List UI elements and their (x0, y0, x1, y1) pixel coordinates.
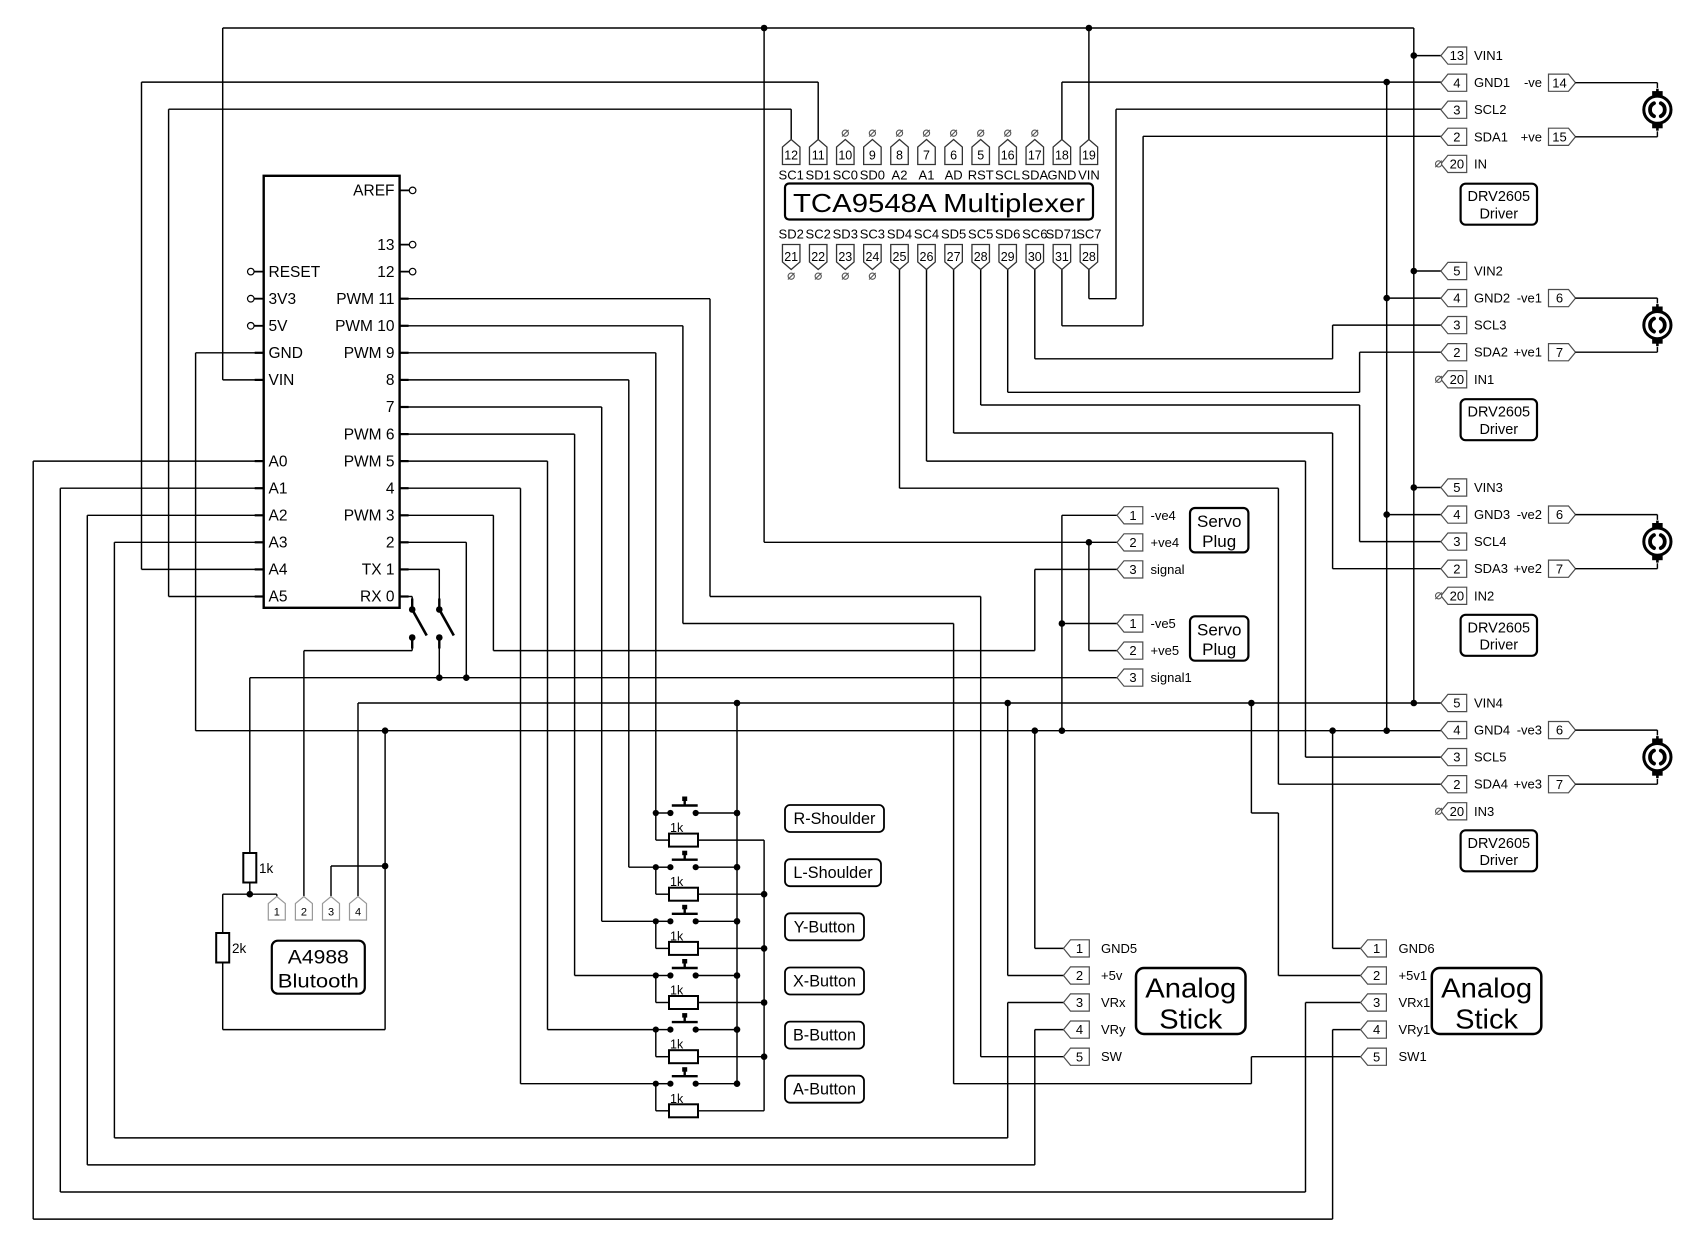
svg-text:25: 25 (893, 250, 907, 264)
svg-text:Driver: Driver (1479, 853, 1518, 869)
svg-text:2: 2 (1453, 345, 1460, 360)
svg-text:SW: SW (1101, 1049, 1123, 1064)
svg-text:Y-Button: Y-Button (794, 918, 856, 936)
svg-text:18: 18 (1055, 148, 1069, 162)
svg-text:6: 6 (1556, 723, 1563, 738)
svg-text:GND2: GND2 (1474, 291, 1510, 306)
svg-text:SC7: SC7 (1076, 227, 1101, 242)
svg-text:A2: A2 (269, 508, 288, 525)
svg-text:Servo: Servo (1197, 620, 1241, 639)
svg-text:IN2: IN2 (1474, 588, 1494, 603)
svg-text:1k: 1k (670, 929, 684, 943)
svg-text:DRV2605: DRV2605 (1467, 836, 1530, 852)
svg-text:12: 12 (784, 148, 798, 162)
svg-text:SW1: SW1 (1399, 1049, 1427, 1064)
svg-text:IN: IN (1474, 156, 1487, 171)
svg-text:2: 2 (301, 907, 307, 919)
svg-text:SD0: SD0 (860, 168, 885, 183)
svg-text:1: 1 (1373, 941, 1380, 956)
svg-text:2: 2 (1129, 643, 1136, 658)
svg-text:16: 16 (1001, 148, 1015, 162)
svg-text:2: 2 (1453, 777, 1460, 792)
svg-text:PWM 9: PWM 9 (344, 345, 395, 362)
svg-text:4: 4 (1453, 723, 1460, 738)
svg-text:signal1: signal1 (1151, 670, 1192, 685)
svg-text:SCL5: SCL5 (1474, 750, 1507, 765)
svg-text:Analog: Analog (1441, 973, 1532, 1004)
svg-text:20: 20 (1450, 372, 1464, 387)
svg-text:IN1: IN1 (1474, 372, 1494, 387)
svg-text:20: 20 (1450, 588, 1464, 603)
svg-text:28: 28 (1082, 250, 1096, 264)
svg-text:A1: A1 (919, 168, 935, 183)
svg-text:VRx: VRx (1101, 995, 1126, 1010)
svg-text:SCL: SCL (995, 168, 1020, 183)
svg-text:VRy1: VRy1 (1399, 1022, 1431, 1037)
svg-text:B-Button: B-Button (793, 1027, 856, 1045)
svg-text:2: 2 (1453, 129, 1460, 144)
svg-text:GND3: GND3 (1474, 507, 1510, 522)
svg-text:5: 5 (1076, 1049, 1083, 1064)
svg-text:3: 3 (1453, 318, 1460, 333)
svg-text:PWM 11: PWM 11 (336, 291, 394, 308)
svg-text:SC0: SC0 (833, 168, 858, 183)
svg-text:VIN3: VIN3 (1474, 480, 1503, 495)
svg-text:+5v1: +5v1 (1399, 968, 1428, 983)
svg-text:Driver: Driver (1479, 422, 1518, 438)
svg-text:22: 22 (811, 250, 825, 264)
svg-text:3: 3 (1373, 995, 1380, 1010)
svg-text:SD2: SD2 (779, 227, 804, 242)
svg-text:Driver: Driver (1479, 638, 1518, 654)
svg-text:VIN2: VIN2 (1474, 264, 1503, 279)
svg-text:+5v: +5v (1101, 968, 1123, 983)
svg-text:8: 8 (896, 148, 903, 162)
svg-text:DRV2605: DRV2605 (1467, 620, 1530, 636)
svg-text:VRy: VRy (1101, 1022, 1126, 1037)
svg-text:4: 4 (1453, 507, 1460, 522)
svg-text:TX 1: TX 1 (362, 562, 395, 579)
svg-text:SC3: SC3 (860, 227, 885, 242)
svg-text:4: 4 (1453, 75, 1460, 90)
svg-text:14: 14 (1552, 75, 1566, 90)
svg-text:SDA1: SDA1 (1474, 129, 1508, 144)
svg-text:5: 5 (1453, 696, 1460, 711)
svg-text:VRx1: VRx1 (1399, 995, 1431, 1010)
svg-text:23: 23 (838, 250, 852, 264)
svg-text:31: 31 (1055, 250, 1069, 264)
svg-text:AD: AD (945, 168, 963, 183)
svg-text:5: 5 (977, 148, 984, 162)
svg-text:A2: A2 (892, 168, 908, 183)
svg-text:VIN: VIN (269, 372, 295, 389)
svg-text:A1: A1 (269, 480, 288, 497)
svg-text:15: 15 (1552, 129, 1566, 144)
svg-text:SC4: SC4 (914, 227, 939, 242)
svg-text:7: 7 (1556, 777, 1563, 792)
svg-text:5: 5 (1373, 1049, 1380, 1064)
svg-text:-ve3: -ve3 (1517, 723, 1542, 738)
svg-text:VIN: VIN (1078, 168, 1100, 183)
svg-text:13: 13 (1450, 48, 1464, 63)
svg-text:1: 1 (274, 907, 280, 919)
svg-text:6: 6 (1556, 507, 1563, 522)
svg-text:SC2: SC2 (806, 227, 831, 242)
svg-text:SD5: SD5 (941, 227, 966, 242)
svg-text:2: 2 (386, 535, 395, 552)
svg-text:7: 7 (923, 148, 930, 162)
svg-text:4: 4 (355, 907, 361, 919)
svg-text:2: 2 (1453, 561, 1460, 576)
svg-text:SC1: SC1 (779, 168, 804, 183)
svg-text:TCA9548A Multiplexer: TCA9548A Multiplexer (793, 188, 1085, 218)
svg-text:Plug: Plug (1202, 532, 1236, 551)
svg-text:SD4: SD4 (887, 227, 912, 242)
svg-text:4: 4 (1453, 291, 1460, 306)
svg-text:1k: 1k (670, 1092, 684, 1106)
svg-text:8: 8 (386, 372, 395, 389)
svg-text:17: 17 (1028, 148, 1042, 162)
svg-text:2k: 2k (232, 941, 247, 956)
svg-text:DRV2605: DRV2605 (1467, 189, 1530, 205)
svg-text:A4: A4 (269, 562, 288, 579)
svg-text:3V3: 3V3 (269, 291, 297, 308)
svg-text:20: 20 (1450, 804, 1464, 819)
svg-text:+ve2: +ve2 (1513, 561, 1542, 576)
svg-text:7: 7 (1556, 561, 1563, 576)
svg-text:5: 5 (1453, 264, 1460, 279)
svg-text:SDA3: SDA3 (1474, 561, 1508, 576)
svg-text:3: 3 (328, 907, 334, 919)
svg-text:-ve1: -ve1 (1517, 291, 1542, 306)
svg-text:Driver: Driver (1479, 207, 1518, 223)
svg-text:2: 2 (1373, 968, 1380, 983)
svg-text:9: 9 (869, 148, 876, 162)
svg-text:GND1: GND1 (1474, 75, 1510, 90)
svg-text:+ve5: +ve5 (1151, 643, 1180, 658)
svg-text:30: 30 (1028, 250, 1042, 264)
svg-text:PWM 3: PWM 3 (344, 508, 395, 525)
svg-text:PWM 10: PWM 10 (335, 318, 395, 335)
svg-text:GND: GND (269, 345, 303, 362)
svg-text:AREF: AREF (353, 183, 394, 200)
svg-text:X-Button: X-Button (793, 973, 856, 991)
svg-text:4: 4 (1076, 1022, 1083, 1037)
svg-text:SC6: SC6 (1022, 227, 1047, 242)
svg-text:SD3: SD3 (833, 227, 858, 242)
svg-text:RST: RST (968, 168, 994, 183)
svg-text:Analog: Analog (1145, 973, 1236, 1004)
svg-text:1k: 1k (670, 984, 684, 998)
svg-text:VIN4: VIN4 (1474, 696, 1503, 711)
svg-text:SCL4: SCL4 (1474, 534, 1507, 549)
svg-text:1: 1 (1129, 508, 1136, 523)
svg-text:27: 27 (947, 250, 961, 264)
svg-text:3: 3 (1453, 102, 1460, 117)
svg-text:SC5: SC5 (968, 227, 993, 242)
svg-text:+ve1: +ve1 (1513, 345, 1542, 360)
svg-text:GND6: GND6 (1399, 941, 1435, 956)
svg-text:2: 2 (1076, 968, 1083, 983)
svg-text:PWM 6: PWM 6 (344, 426, 395, 443)
svg-text:-ve2: -ve2 (1517, 507, 1542, 522)
svg-text:28: 28 (974, 250, 988, 264)
svg-text:5: 5 (1453, 480, 1460, 495)
svg-text:Blutooth: Blutooth (278, 971, 359, 993)
svg-text:19: 19 (1082, 148, 1096, 162)
svg-text:Plug: Plug (1202, 640, 1236, 659)
svg-text:+ve4: +ve4 (1151, 535, 1180, 550)
svg-text:SDA2: SDA2 (1474, 345, 1508, 360)
svg-text:-ve: -ve (1524, 75, 1542, 90)
svg-text:+ve3: +ve3 (1513, 777, 1542, 792)
svg-text:L-Shoulder: L-Shoulder (793, 864, 873, 882)
svg-text:Servo: Servo (1197, 512, 1241, 531)
svg-text:3: 3 (1076, 995, 1083, 1010)
svg-text:A4988: A4988 (288, 947, 349, 969)
svg-text:-ve4: -ve4 (1151, 508, 1176, 523)
svg-text:SD71: SD71 (1046, 227, 1079, 242)
svg-text:A5: A5 (269, 589, 288, 606)
svg-text:1k: 1k (670, 1038, 684, 1052)
svg-text:Stick: Stick (1159, 1004, 1223, 1035)
svg-text:3: 3 (1453, 750, 1460, 765)
svg-text:signal: signal (1151, 562, 1185, 577)
svg-text:6: 6 (1556, 291, 1563, 306)
svg-text:3: 3 (1129, 562, 1136, 577)
svg-text:3: 3 (1129, 670, 1136, 685)
svg-text:GND: GND (1047, 168, 1076, 183)
svg-text:PWM 5: PWM 5 (344, 453, 395, 470)
svg-text:IN3: IN3 (1474, 804, 1494, 819)
svg-text:3: 3 (1453, 534, 1460, 549)
svg-text:7: 7 (386, 399, 395, 416)
svg-text:6: 6 (950, 148, 957, 162)
svg-text:SD1: SD1 (806, 168, 831, 183)
svg-text:1: 1 (1129, 616, 1136, 631)
svg-text:7: 7 (1556, 345, 1563, 360)
svg-text:10: 10 (838, 148, 852, 162)
svg-text:+ve: +ve (1521, 129, 1542, 144)
svg-text:29: 29 (1001, 250, 1015, 264)
svg-text:SCL3: SCL3 (1474, 318, 1507, 333)
svg-text:RESET: RESET (269, 264, 321, 281)
svg-text:5V: 5V (269, 318, 289, 335)
svg-text:24: 24 (865, 250, 879, 264)
svg-text:A3: A3 (269, 535, 288, 552)
svg-text:2: 2 (1129, 535, 1136, 550)
svg-text:20: 20 (1450, 157, 1464, 172)
svg-text:1k: 1k (259, 861, 274, 876)
svg-text:11: 11 (812, 148, 825, 162)
svg-text:1: 1 (1076, 941, 1083, 956)
svg-text:DRV2605: DRV2605 (1467, 405, 1530, 421)
svg-text:-ve5: -ve5 (1151, 616, 1176, 631)
svg-text:1k: 1k (670, 821, 684, 835)
svg-text:21: 21 (784, 250, 798, 264)
svg-text:A0: A0 (269, 453, 288, 470)
svg-text:13: 13 (377, 237, 394, 254)
svg-text:SDA: SDA (1021, 168, 1048, 183)
svg-text:12: 12 (377, 264, 394, 281)
svg-text:RX 0: RX 0 (360, 589, 395, 606)
svg-text:26: 26 (920, 250, 934, 264)
svg-text:R-Shoulder: R-Shoulder (794, 810, 876, 828)
svg-text:SCL2: SCL2 (1474, 102, 1507, 117)
svg-text:1k: 1k (670, 875, 684, 889)
svg-text:SDA4: SDA4 (1474, 777, 1508, 792)
svg-text:4: 4 (1373, 1022, 1380, 1037)
svg-text:VIN1: VIN1 (1474, 48, 1503, 63)
svg-text:SD6: SD6 (995, 227, 1020, 242)
svg-text:4: 4 (386, 480, 395, 497)
svg-text:A-Button: A-Button (793, 1081, 856, 1099)
svg-text:GND5: GND5 (1101, 941, 1137, 956)
svg-text:GND4: GND4 (1474, 723, 1510, 738)
svg-text:Stick: Stick (1455, 1004, 1519, 1035)
